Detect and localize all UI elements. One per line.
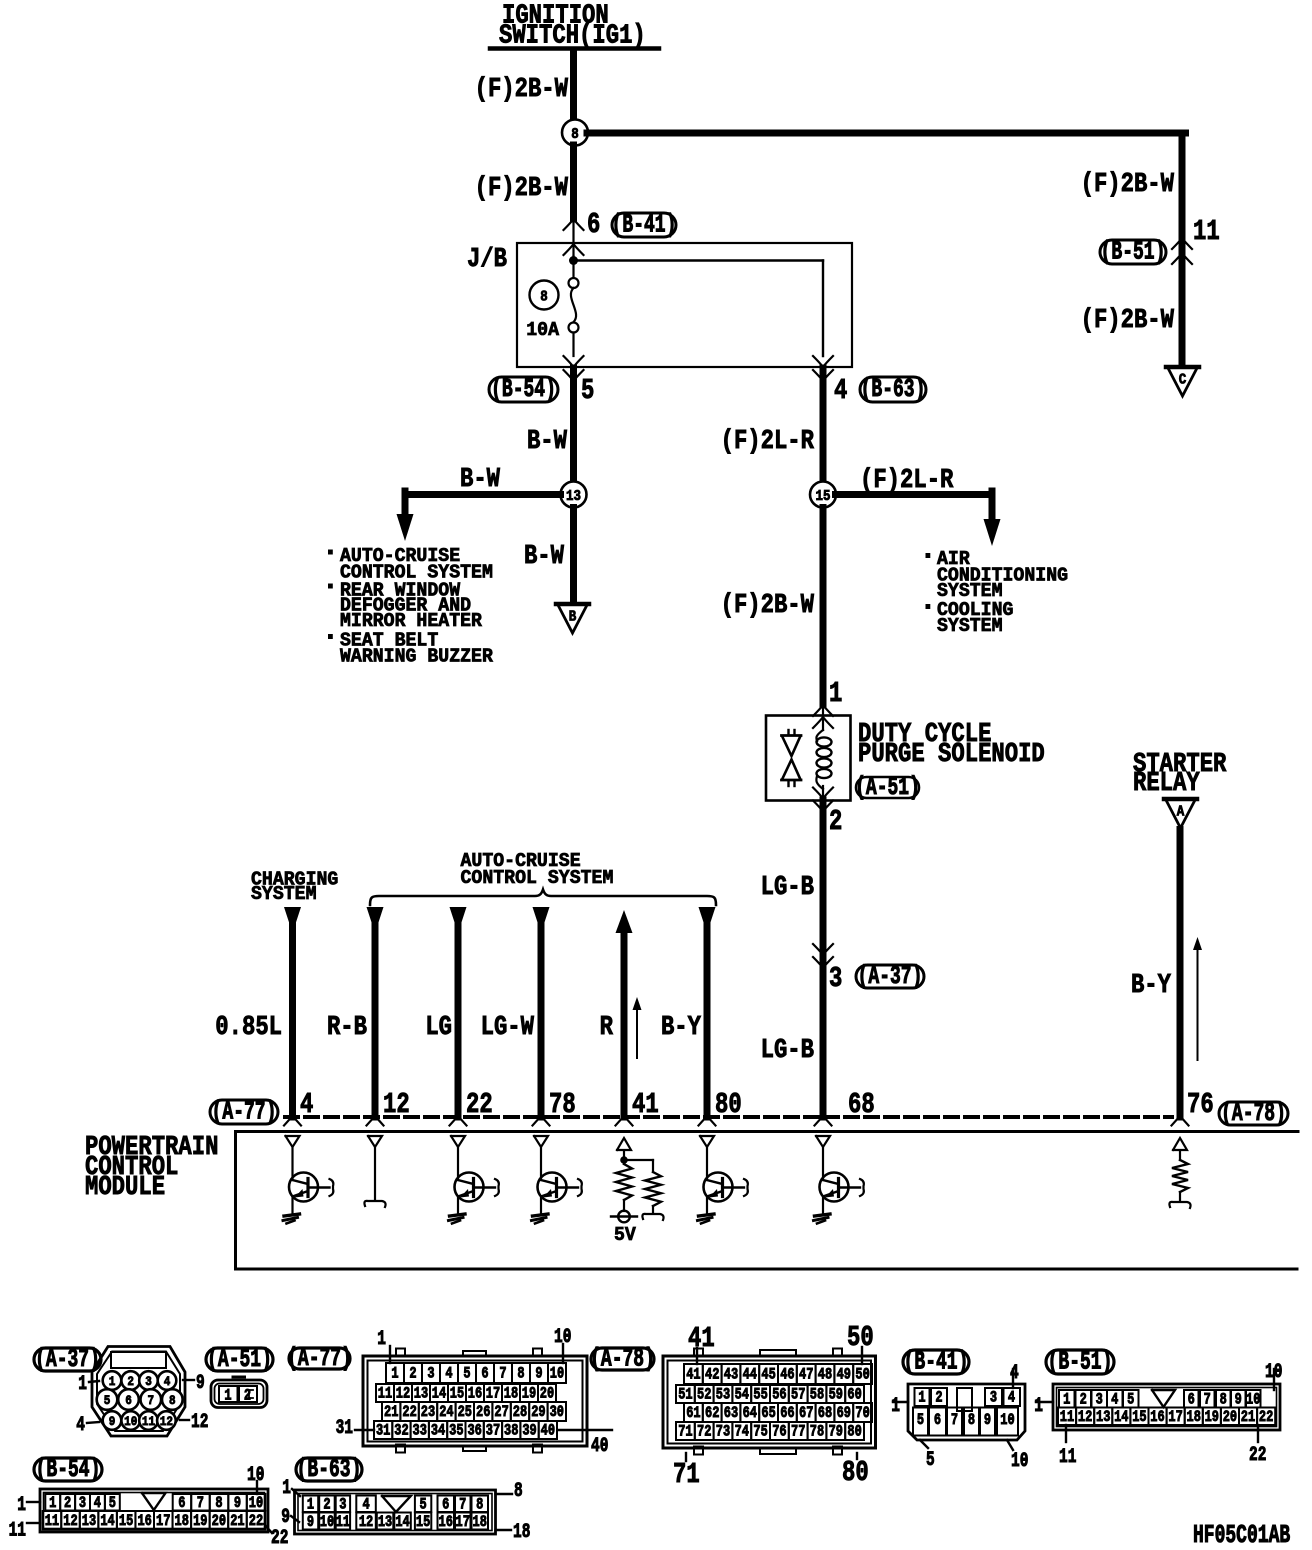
svg-text:10: 10	[247, 1464, 264, 1487]
svg-text:0.85L: 0.85L	[215, 1012, 282, 1043]
svg-text:A: A	[1177, 805, 1185, 821]
svg-text:1: 1	[307, 1496, 314, 1514]
svg-text:1: 1	[377, 1328, 386, 1351]
svg-text:11: 11	[142, 1414, 155, 1429]
wire junction 8 down to J/B	[570, 145, 577, 219]
svg-text:56: 56	[772, 1386, 786, 1404]
svg-text:(A-37): (A-37)	[35, 1344, 100, 1374]
svg-text:9: 9	[281, 1506, 290, 1529]
svg-text:1: 1	[78, 1373, 87, 1396]
bullet list right systems	[926, 548, 1069, 638]
svg-text:17: 17	[1168, 1409, 1182, 1427]
oval label B-63 connector	[296, 1458, 362, 1481]
svg-text:B-W: B-W	[524, 541, 564, 572]
triangle B to other page	[556, 602, 589, 607]
junction circle 8	[562, 120, 588, 146]
svg-text:7: 7	[951, 1412, 958, 1430]
svg-text:21: 21	[384, 1404, 398, 1422]
svg-text:7: 7	[148, 1393, 155, 1408]
svg-text:1: 1	[891, 1395, 900, 1418]
fuse 8 10A	[569, 278, 579, 288]
svg-text:2: 2	[323, 1496, 330, 1514]
svg-text:17: 17	[156, 1513, 170, 1531]
arrow to auto-cruise etc	[397, 514, 414, 541]
transistor at pin x=707	[698, 1148, 748, 1224]
svg-text:6: 6	[934, 1412, 941, 1430]
svg-text:5: 5	[104, 1393, 111, 1408]
connector A-37 pins	[103, 1371, 122, 1390]
svg-text:5: 5	[109, 1495, 116, 1513]
oval label A-78 connector	[591, 1348, 654, 1370]
wire starter relay down to PCM pin 76	[1177, 830, 1184, 1118]
oval label A-77 connector	[289, 1348, 350, 1369]
svg-text:59: 59	[829, 1386, 843, 1404]
svg-text:74: 74	[735, 1423, 749, 1441]
svg-text:7: 7	[1204, 1391, 1211, 1409]
svg-text:11: 11	[378, 1385, 392, 1403]
duty cycle purge solenoid box	[766, 716, 851, 801]
svg-text:8: 8	[540, 290, 548, 306]
triangle C to other page	[1166, 365, 1199, 370]
svg-text:6: 6	[178, 1495, 185, 1513]
connector chevrons solenoid pin 1	[813, 705, 833, 716]
svg-text:4: 4	[445, 1365, 452, 1383]
svg-text:14: 14	[395, 1514, 409, 1532]
svg-text:5V: 5V	[614, 1224, 637, 1247]
svg-text:30: 30	[550, 1404, 564, 1422]
wire right branch down to triangle C	[1179, 133, 1186, 363]
svg-text:20: 20	[212, 1513, 226, 1531]
svg-text:3: 3	[79, 1495, 86, 1513]
flow arrow up starter	[1197, 945, 1199, 1060]
svg-text:6: 6	[442, 1496, 449, 1514]
svg-text:17: 17	[456, 1514, 470, 1532]
triangle A from starter relay	[1164, 797, 1197, 802]
svg-text:45: 45	[761, 1366, 775, 1384]
wire R-B to PCM pin 12	[367, 907, 384, 933]
svg-text:50: 50	[855, 1366, 869, 1384]
svg-text:49: 49	[837, 1366, 851, 1384]
svg-text:13: 13	[378, 1514, 392, 1532]
svg-text:2: 2	[244, 1387, 251, 1405]
svg-text:(A-78): (A-78)	[1221, 1098, 1286, 1128]
connector B-63 body	[295, 1490, 496, 1534]
svg-text:40: 40	[541, 1422, 555, 1440]
svg-text:10: 10	[124, 1414, 137, 1429]
svg-text:11: 11	[1193, 215, 1220, 248]
connector B-54 cells	[45, 1494, 60, 1511]
svg-text:5: 5	[581, 374, 594, 407]
wire junction 13 left branch	[405, 491, 561, 498]
svg-text:R: R	[600, 1012, 613, 1043]
svg-text:2: 2	[935, 1389, 942, 1407]
svg-text:RELAY: RELAY	[1133, 768, 1200, 799]
wire LG to PCM pin 22	[450, 907, 467, 933]
svg-text:(F)2L-R: (F)2L-R	[721, 426, 814, 457]
connector chevrons B-51	[1172, 238, 1192, 249]
svg-text:9: 9	[234, 1495, 241, 1513]
transistor at pin x=458	[449, 1148, 499, 1224]
svg-text:71: 71	[673, 1458, 700, 1491]
svg-text:8: 8	[514, 1480, 523, 1503]
svg-text:16: 16	[439, 1514, 453, 1532]
svg-text:79: 79	[829, 1423, 843, 1441]
svg-text:72: 72	[697, 1423, 711, 1441]
svg-text:76: 76	[772, 1423, 786, 1441]
svg-text:53: 53	[716, 1386, 730, 1404]
svg-text:12: 12	[160, 1414, 173, 1429]
svg-text:14: 14	[1114, 1409, 1128, 1427]
svg-text:14: 14	[100, 1513, 114, 1531]
dashed connector line A-77/A-78	[285, 1115, 1172, 1119]
svg-text:B-W: B-W	[460, 464, 500, 495]
svg-text:7: 7	[197, 1495, 204, 1513]
svg-text:22: 22	[1259, 1409, 1273, 1427]
svg-text:6: 6	[125, 1393, 132, 1408]
svg-text:8: 8	[476, 1496, 483, 1514]
svg-text:1: 1	[1063, 1391, 1070, 1409]
connector A-37 body	[92, 1347, 185, 1437]
svg-text:41: 41	[686, 1366, 700, 1384]
connector chevrons at J/B pin 6	[564, 219, 584, 230]
svg-text:80: 80	[842, 1456, 869, 1489]
svg-text:4: 4	[1010, 1362, 1019, 1385]
svg-text:11: 11	[336, 1514, 350, 1532]
svg-text:9: 9	[196, 1372, 205, 1395]
brace auto-cruise group	[370, 890, 716, 906]
oval label B-63	[860, 377, 926, 402]
svg-text:12: 12	[396, 1385, 410, 1403]
transistor at pin x=541	[532, 1148, 582, 1224]
svg-text:(F)2B-W: (F)2B-W	[1081, 305, 1174, 336]
oval label B-41 connector	[903, 1350, 969, 1374]
svg-text:2: 2	[409, 1365, 416, 1383]
svg-text:20: 20	[540, 1385, 554, 1403]
svg-text:5: 5	[1127, 1391, 1134, 1409]
svg-text:14: 14	[432, 1385, 446, 1403]
oval label B-41	[612, 213, 676, 237]
svg-text:B: B	[569, 610, 577, 626]
svg-text:1: 1	[17, 1494, 26, 1517]
svg-text:(B-63): (B-63)	[297, 1454, 362, 1484]
svg-text:1: 1	[1034, 1395, 1043, 1418]
svg-text:J/B: J/B	[467, 244, 507, 275]
svg-text:44: 44	[743, 1366, 757, 1384]
svg-text:13: 13	[566, 489, 581, 505]
svg-text:5: 5	[917, 1412, 924, 1430]
svg-text:(A-78): (A-78)	[590, 1343, 655, 1373]
svg-text:B-Y: B-Y	[1131, 970, 1171, 1001]
svg-text:11: 11	[45, 1513, 59, 1531]
svg-text:22: 22	[249, 1513, 263, 1531]
svg-text:1: 1	[282, 1477, 291, 1500]
fuse number circle 8	[530, 281, 559, 310]
svg-text:55: 55	[753, 1386, 767, 1404]
oval label B-51 connector	[1046, 1350, 1114, 1374]
svg-text:15: 15	[119, 1513, 133, 1531]
svg-text:13: 13	[414, 1385, 428, 1403]
svg-text:77: 77	[791, 1423, 805, 1441]
svg-text:1: 1	[918, 1389, 925, 1407]
svg-text:2: 2	[829, 805, 842, 838]
svg-text:9: 9	[984, 1412, 991, 1430]
svg-text:54: 54	[735, 1386, 749, 1404]
svg-text:(B-51): (B-51)	[1101, 236, 1166, 266]
pin numbers along PCM line	[300, 1088, 1214, 1121]
svg-text:25: 25	[458, 1404, 472, 1422]
svg-text:12: 12	[191, 1411, 208, 1434]
oval label A-51 connector	[206, 1348, 273, 1371]
svg-text:75: 75	[753, 1423, 767, 1441]
connector A-51 body	[211, 1377, 267, 1408]
transistor at pin x=823	[814, 1148, 864, 1224]
svg-text:9: 9	[109, 1414, 116, 1429]
svg-text:1: 1	[391, 1365, 398, 1383]
wire B-Y to PCM pin 80	[699, 907, 716, 933]
svg-text:R-B: R-B	[327, 1012, 367, 1043]
wire LG-W to PCM pin 78	[533, 907, 550, 933]
svg-text:10: 10	[1246, 1391, 1260, 1409]
svg-text:22: 22	[466, 1088, 493, 1121]
svg-text:16: 16	[468, 1385, 482, 1403]
svg-text:4: 4	[94, 1495, 101, 1513]
svg-text:5: 5	[463, 1365, 470, 1383]
oval label A-77	[210, 1100, 278, 1124]
svg-text:66: 66	[780, 1405, 794, 1423]
wire R from PCM pin 41	[616, 910, 633, 933]
oval label B-51	[1100, 240, 1166, 264]
svg-text:CONTROL SYSTEM: CONTROL SYSTEM	[461, 867, 614, 890]
svg-text:20: 20	[1223, 1409, 1237, 1427]
svg-text:2: 2	[1080, 1391, 1087, 1409]
svg-text:10: 10	[1011, 1450, 1028, 1473]
svg-text:52: 52	[697, 1386, 711, 1404]
svg-text:76: 76	[1187, 1088, 1214, 1121]
svg-text:43: 43	[724, 1366, 738, 1384]
svg-text:12: 12	[359, 1514, 373, 1532]
svg-text:51: 51	[678, 1386, 692, 1404]
svg-text:9: 9	[307, 1514, 314, 1532]
svg-text:24: 24	[439, 1404, 453, 1422]
svg-text:SYSTEM: SYSTEM	[937, 615, 1003, 638]
connector A-77 pin cells	[386, 1363, 404, 1383]
connector B-63 cells	[303, 1496, 318, 1513]
svg-text:3: 3	[145, 1374, 152, 1389]
svg-text:27: 27	[494, 1404, 508, 1422]
svg-text:3: 3	[990, 1389, 997, 1407]
wire ignition down to junction 8	[570, 50, 577, 120]
svg-text:31: 31	[336, 1417, 353, 1440]
svg-text:10: 10	[1000, 1412, 1014, 1430]
svg-text:60: 60	[847, 1386, 861, 1404]
svg-text:18: 18	[1186, 1409, 1200, 1427]
svg-text:4: 4	[164, 1374, 171, 1389]
svg-text:15: 15	[416, 1514, 430, 1532]
connector chevrons solenoid pin 2	[813, 788, 833, 799]
wire B-63 down to junction 15	[820, 368, 827, 482]
svg-text:15: 15	[1132, 1409, 1146, 1427]
wire junction 15 down to purge solenoid	[820, 508, 827, 706]
svg-text:C: C	[1179, 373, 1187, 389]
svg-text:29: 29	[531, 1404, 545, 1422]
svg-text:22: 22	[1249, 1444, 1266, 1467]
svg-text:10: 10	[249, 1495, 263, 1513]
svg-text:42: 42	[705, 1366, 719, 1384]
svg-text:19: 19	[522, 1385, 536, 1403]
resistor at pin 76	[1169, 1151, 1190, 1209]
connector A-78 pin cells	[684, 1364, 703, 1384]
junction block J/B box	[517, 243, 852, 367]
svg-text:1: 1	[224, 1387, 231, 1405]
svg-text:6: 6	[587, 208, 600, 241]
svg-text:2: 2	[127, 1374, 134, 1389]
svg-text:18: 18	[473, 1514, 487, 1532]
svg-text:15: 15	[450, 1385, 464, 1403]
svg-text:12: 12	[383, 1088, 410, 1121]
svg-text:31: 31	[376, 1422, 390, 1440]
svg-text:3: 3	[427, 1365, 434, 1383]
svg-text:61: 61	[686, 1405, 700, 1423]
svg-text:16: 16	[137, 1513, 151, 1531]
svg-text:8: 8	[1220, 1391, 1227, 1409]
svg-text:LG: LG	[425, 1012, 452, 1043]
svg-text:16: 16	[1150, 1409, 1164, 1427]
svg-text:8: 8	[517, 1365, 524, 1383]
svg-text:11: 11	[1059, 1446, 1076, 1469]
node junction dot in J/B	[572, 256, 574, 278]
svg-text:15: 15	[815, 489, 830, 505]
svg-text:4: 4	[834, 374, 847, 407]
label POWERTRAIN CONTROL MODULE	[85, 1132, 218, 1203]
svg-text:(A-51): (A-51)	[855, 772, 920, 802]
svg-text:10A: 10A	[526, 319, 560, 342]
oval label A-37 inline	[856, 965, 924, 988]
stub under pin 12	[374, 1148, 376, 1201]
svg-text:64: 64	[743, 1405, 757, 1423]
svg-text:6: 6	[481, 1365, 488, 1383]
svg-text:8: 8	[215, 1495, 222, 1513]
svg-text:17: 17	[486, 1385, 500, 1403]
oval label A-51	[856, 777, 919, 798]
svg-text:(B-41): (B-41)	[612, 209, 677, 239]
svg-text:78: 78	[549, 1088, 576, 1121]
connector chevrons at J/B pin 5 exit	[564, 356, 584, 367]
svg-text:3: 3	[339, 1496, 346, 1514]
svg-text:4: 4	[300, 1088, 313, 1121]
wire J/B internal to pin 4 branch	[574, 259, 824, 261]
svg-text:70: 70	[855, 1405, 869, 1423]
powertrain control module box	[236, 1132, 1299, 1270]
svg-text:69: 69	[837, 1405, 851, 1423]
svg-text:28: 28	[513, 1404, 527, 1422]
svg-text:19: 19	[193, 1513, 207, 1531]
svg-text:68: 68	[848, 1088, 875, 1121]
svg-text:80: 80	[715, 1088, 742, 1121]
svg-text:65: 65	[761, 1405, 775, 1423]
oval label B-54	[489, 377, 558, 402]
svg-text:68: 68	[818, 1405, 832, 1423]
svg-text:21: 21	[1241, 1409, 1255, 1427]
svg-text:39: 39	[522, 1422, 536, 1440]
svg-text:3: 3	[829, 962, 842, 995]
svg-text:6: 6	[1188, 1391, 1195, 1409]
svg-text:5: 5	[419, 1496, 426, 1514]
svg-text:35: 35	[449, 1422, 463, 1440]
svg-text:38: 38	[504, 1422, 518, 1440]
svg-text:13: 13	[82, 1513, 96, 1531]
svg-text:(A-77): (A-77)	[287, 1343, 352, 1373]
svg-text:41: 41	[632, 1088, 659, 1121]
svg-text:(B-54): (B-54)	[491, 374, 556, 404]
wire junction 8 to right corner	[587, 130, 1186, 137]
flow arrow up at pin 41	[636, 1005, 638, 1058]
svg-text:SYSTEM: SYSTEM	[251, 883, 317, 906]
svg-text:32: 32	[394, 1422, 408, 1440]
svg-text:8: 8	[571, 127, 579, 143]
svg-text:9: 9	[1235, 1391, 1242, 1409]
svg-text:4: 4	[1008, 1389, 1015, 1407]
svg-text:21: 21	[230, 1513, 244, 1531]
svg-text:1: 1	[49, 1495, 56, 1513]
svg-text:LG-B: LG-B	[761, 1035, 814, 1066]
svg-text:(F)2B-W: (F)2B-W	[475, 74, 568, 105]
svg-text:(A-37): (A-37)	[858, 961, 923, 991]
connector B-41 body	[908, 1384, 1025, 1440]
svg-text:78: 78	[810, 1423, 824, 1441]
svg-text:7: 7	[499, 1365, 506, 1383]
svg-text:12: 12	[63, 1513, 77, 1531]
svg-text:18: 18	[513, 1521, 530, 1544]
pin triangles inside PCM	[286, 1136, 300, 1147]
solenoid coil	[816, 730, 831, 796]
svg-text:B-Y: B-Y	[661, 1012, 701, 1043]
svg-text:47: 47	[799, 1366, 813, 1384]
svg-text:67: 67	[799, 1405, 813, 1423]
svg-text:73: 73	[716, 1423, 730, 1441]
svg-text:22: 22	[271, 1527, 288, 1550]
junction circle 15	[810, 482, 836, 508]
wire junction 13 down to triangle B	[570, 508, 577, 601]
svg-text:8: 8	[169, 1393, 176, 1408]
connector chevrons A-37 inline	[813, 944, 833, 955]
svg-text:9: 9	[535, 1365, 542, 1383]
svg-text:58: 58	[810, 1386, 824, 1404]
svg-text:40: 40	[591, 1435, 608, 1458]
svg-text:34: 34	[431, 1422, 445, 1440]
svg-text:(F)2B-W: (F)2B-W	[721, 590, 814, 621]
svg-text:62: 62	[705, 1405, 719, 1423]
svg-text:36: 36	[467, 1422, 481, 1440]
svg-text:48: 48	[818, 1366, 832, 1384]
svg-text:4: 4	[362, 1496, 369, 1514]
svg-text:7: 7	[459, 1496, 466, 1514]
svg-text:(A-51): (A-51)	[207, 1344, 272, 1374]
svg-text:B-W: B-W	[527, 426, 567, 457]
junction circle 13	[561, 482, 587, 508]
svg-text:12: 12	[1078, 1409, 1092, 1427]
crow feet at PCM pins	[284, 1116, 293, 1126]
svg-text:18: 18	[175, 1513, 189, 1531]
connector B-41 cells	[915, 1388, 930, 1406]
svg-text:(B-63): (B-63)	[861, 374, 926, 404]
wire solenoid down to PCM pin 68	[820, 800, 827, 1117]
bullet list left systems	[328, 545, 494, 668]
svg-text:33: 33	[413, 1422, 427, 1440]
svg-text:19: 19	[1205, 1409, 1219, 1427]
svg-text:(F)2B-W: (F)2B-W	[1081, 169, 1174, 200]
oval label A-37 connector	[34, 1348, 101, 1371]
svg-text:HF05C01AB: HF05C01AB	[1193, 1520, 1290, 1550]
